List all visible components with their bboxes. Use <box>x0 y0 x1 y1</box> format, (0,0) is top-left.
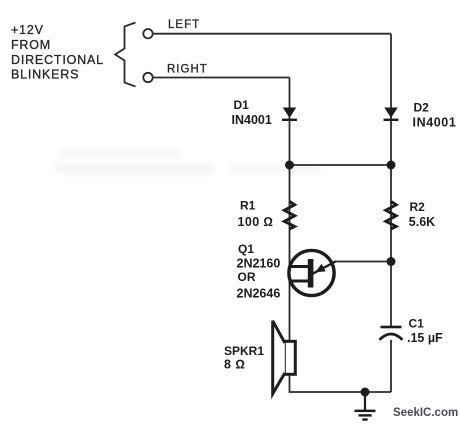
svg-text:100 Ω: 100 Ω <box>238 215 274 229</box>
wire emitter to right column <box>334 261 391 263</box>
terminal LEFT <box>143 29 152 38</box>
capacitor C1 <box>380 326 403 340</box>
wire RIGHT top <box>153 77 290 79</box>
svg-text:IN4001: IN4001 <box>413 115 457 129</box>
wire right column <box>390 34 392 326</box>
svg-text:2N2160: 2N2160 <box>237 257 281 271</box>
svg-text:BLINKERS: BLINKERS <box>11 68 79 82</box>
svg-text:SeekIC.com: SeekIC.com <box>393 407 458 419</box>
svg-text:8 Ω: 8 Ω <box>224 357 246 371</box>
node dot right bus <box>387 161 396 170</box>
transistor Q1 <box>289 250 336 295</box>
diode D1 <box>282 108 297 122</box>
wire middle column <box>289 78 291 342</box>
svg-text:R2: R2 <box>410 200 426 214</box>
node dot emitter <box>387 257 396 266</box>
svg-text:+12V: +12V <box>11 23 44 37</box>
resistor R2 <box>386 202 396 230</box>
svg-text:LEFT: LEFT <box>168 19 200 31</box>
terminal RIGHT <box>143 73 152 82</box>
svg-text:RIGHT: RIGHT <box>167 64 208 76</box>
svg-text:.15 µF: .15 µF <box>407 331 443 345</box>
text +12V FROM DIRECTIONAL BLINKERS <box>11 23 104 82</box>
node dot ground <box>361 388 370 397</box>
node dot left bus <box>285 161 294 170</box>
wire LEFT top <box>153 33 391 35</box>
svg-text:R1: R1 <box>240 198 256 212</box>
svg-text:IN4001: IN4001 <box>232 113 272 127</box>
resistor R1 <box>284 202 294 230</box>
wire junction bus <box>290 164 392 166</box>
svg-text:D1: D1 <box>234 98 250 112</box>
ground <box>355 392 376 421</box>
svg-text:2N2646: 2N2646 <box>237 287 281 301</box>
speaker SPKR1 <box>273 321 296 394</box>
svg-text:OR: OR <box>238 270 256 284</box>
svg-text:DIRECTIONAL: DIRECTIONAL <box>11 53 104 67</box>
diode D2 <box>384 108 399 122</box>
svg-text:D2: D2 <box>414 100 430 114</box>
svg-text:C1: C1 <box>409 316 425 330</box>
ghost scan artifact <box>55 148 320 175</box>
brace <box>115 23 135 87</box>
svg-text:Q1: Q1 <box>238 242 254 256</box>
svg-text:FROM: FROM <box>11 38 51 52</box>
svg-text:5.6K: 5.6K <box>409 215 435 229</box>
svg-text:SPKR1: SPKR1 <box>224 344 264 358</box>
